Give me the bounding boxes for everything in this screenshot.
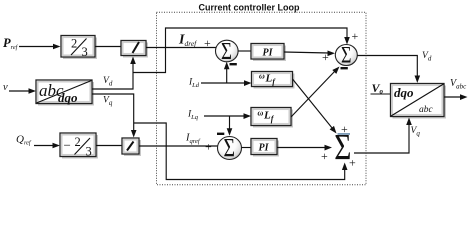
svg-text:2: 2 xyxy=(71,37,77,51)
wire I_Ld to wLf1 with arrow xyxy=(201,80,252,86)
minus sign at S1 bottom input xyxy=(230,63,237,65)
wire 2/3 to divider D1 xyxy=(95,46,121,48)
svg-text:ω: ω xyxy=(258,109,264,118)
wire V_q from abc/dqo down into D2 top with arrow xyxy=(92,94,137,138)
gain block -2/3 xyxy=(60,133,98,159)
transform block dqo/abc xyxy=(391,84,447,119)
wire V_o into dqo/abc block xyxy=(371,93,391,95)
transform block abc/dqo xyxy=(36,80,94,106)
svg-text:dqo: dqo xyxy=(394,85,414,100)
wire V_d output from S2 to dqo/abc top with arrow xyxy=(358,56,421,84)
svg-text:2: 2 xyxy=(75,135,81,149)
dashed boundary box of current controller loop xyxy=(157,12,367,185)
gain block 2/3 xyxy=(61,36,97,60)
wire I_Lq branch down to S3 top with arrow xyxy=(227,116,233,136)
wire V_q feedforward to big sigma bottom with arrow xyxy=(134,123,348,180)
PI controller block PI1 xyxy=(251,44,286,62)
plus sign at S3 left input xyxy=(205,140,212,154)
svg-text:PI: PI xyxy=(263,48,274,59)
wire S3 to PI2 xyxy=(242,147,252,149)
svg-text:+: + xyxy=(352,29,359,43)
wire I_Lq to wLf2 with arrow xyxy=(204,113,251,119)
wire I_qref from D2 to summing junction S3 xyxy=(139,145,218,147)
wire -2/3 to divider D2 xyxy=(96,145,122,147)
svg-text:Current controller Loop: Current controller Loop xyxy=(199,3,301,13)
title Current controller Loop xyxy=(199,3,301,13)
summing junction S2 xyxy=(335,43,357,68)
wire S1 to PI1 xyxy=(238,50,251,52)
node I_qref label xyxy=(185,133,201,146)
PI controller block PI2 xyxy=(251,139,279,157)
plus sign at S1 left input xyxy=(204,36,211,50)
svg-text:3: 3 xyxy=(86,145,92,159)
wire I_dref from D1 to summing junction S1 xyxy=(146,47,217,49)
wire V_abc output with arrow xyxy=(444,94,468,100)
node I_dref label xyxy=(178,33,197,49)
svg-text:ω: ω xyxy=(259,72,265,81)
node P_ref label xyxy=(3,36,19,51)
node I_Lq label xyxy=(187,110,199,122)
diagonal wire wLf2 to S2 with arrow xyxy=(291,67,340,118)
wire PI1 to summing junction S2 with arrow xyxy=(284,51,335,57)
divider block D2 (/) xyxy=(122,138,141,156)
svg-text:abc: abc xyxy=(419,105,434,115)
plus sign at S2 top input xyxy=(352,29,359,43)
diagonal wire wLf1 to big sigma with arrow xyxy=(293,79,337,134)
summing junction S3 xyxy=(218,133,242,162)
svg-text:+: + xyxy=(322,50,329,64)
svg-text:Σ: Σ xyxy=(224,133,236,162)
svg-text:−: − xyxy=(64,138,71,153)
node V_abc label xyxy=(450,78,467,91)
svg-text:+: + xyxy=(204,36,211,50)
node V_d label (left) xyxy=(103,76,113,88)
node V_q label (right) xyxy=(411,126,421,138)
node V_q label (left) xyxy=(103,96,113,108)
node Q_ref label xyxy=(16,134,32,147)
wire V_q output from big sigma to dqo/abc bottom with arrow xyxy=(354,118,412,154)
block wLf2 (omega L_f) xyxy=(251,108,293,128)
svg-text:3: 3 xyxy=(82,45,88,59)
wire P_ref to 2/3 block with arrow xyxy=(19,44,61,50)
svg-text:Σ: Σ xyxy=(341,43,351,68)
plus sign at big sigma left input xyxy=(321,149,328,163)
node V_d label (right) xyxy=(422,51,432,63)
wire Q_ref to -2/3 block with arrow xyxy=(34,143,60,149)
svg-text:+: + xyxy=(205,140,212,154)
block wLf1 (omega L_f) xyxy=(252,72,295,89)
node I_Ld label xyxy=(188,78,200,90)
divider block D1 (/) xyxy=(121,41,148,58)
adder big sigma xyxy=(334,127,351,168)
wire V_d feedforward from V_d line to S2 top with arrow xyxy=(133,28,350,73)
wire v to abc/dqo block with arrow xyxy=(9,88,36,94)
plus sign at S2 left input xyxy=(322,50,329,64)
svg-text:+: + xyxy=(321,149,328,163)
svg-text:Σ: Σ xyxy=(221,36,232,64)
plus sign at big sigma bottom input xyxy=(349,156,356,170)
svg-text:dqo: dqo xyxy=(58,90,78,105)
plus sign at big sigma top input xyxy=(341,122,348,136)
svg-text:v: v xyxy=(3,82,8,93)
wire I_Ld branch up to S1 bottom with arrow xyxy=(224,62,230,83)
minus sign at S2 bottom input xyxy=(341,67,348,69)
node v input label xyxy=(3,82,8,93)
svg-text:PI: PI xyxy=(259,143,270,154)
minus sign at S3 top input xyxy=(217,133,224,135)
wire V_d from abc/dqo up into D1 bottom with arrow xyxy=(92,57,136,90)
wire PI2 to big sigma with arrow xyxy=(277,145,332,151)
summing junction S1 xyxy=(216,36,239,64)
node V_o input label xyxy=(372,81,384,96)
